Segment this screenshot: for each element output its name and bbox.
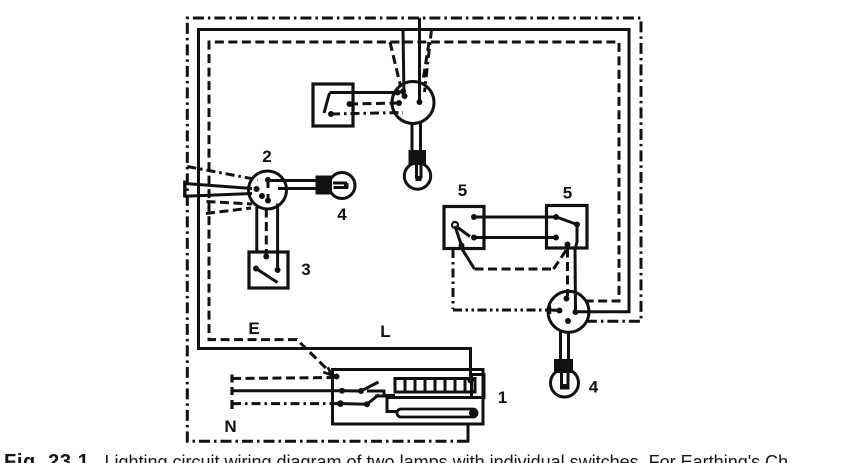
svg-text:3: 3 <box>301 260 310 279</box>
svg-text:1: 1 <box>498 388 507 407</box>
svg-text:5: 5 <box>563 184 572 203</box>
svg-text:4: 4 <box>589 378 599 397</box>
svg-text:N: N <box>224 417 236 436</box>
svg-text:2: 2 <box>262 147 271 166</box>
svg-text:E: E <box>248 319 259 338</box>
svg-text:4: 4 <box>337 205 347 224</box>
svg-text:5: 5 <box>458 181 467 200</box>
svg-text:L: L <box>380 322 390 341</box>
